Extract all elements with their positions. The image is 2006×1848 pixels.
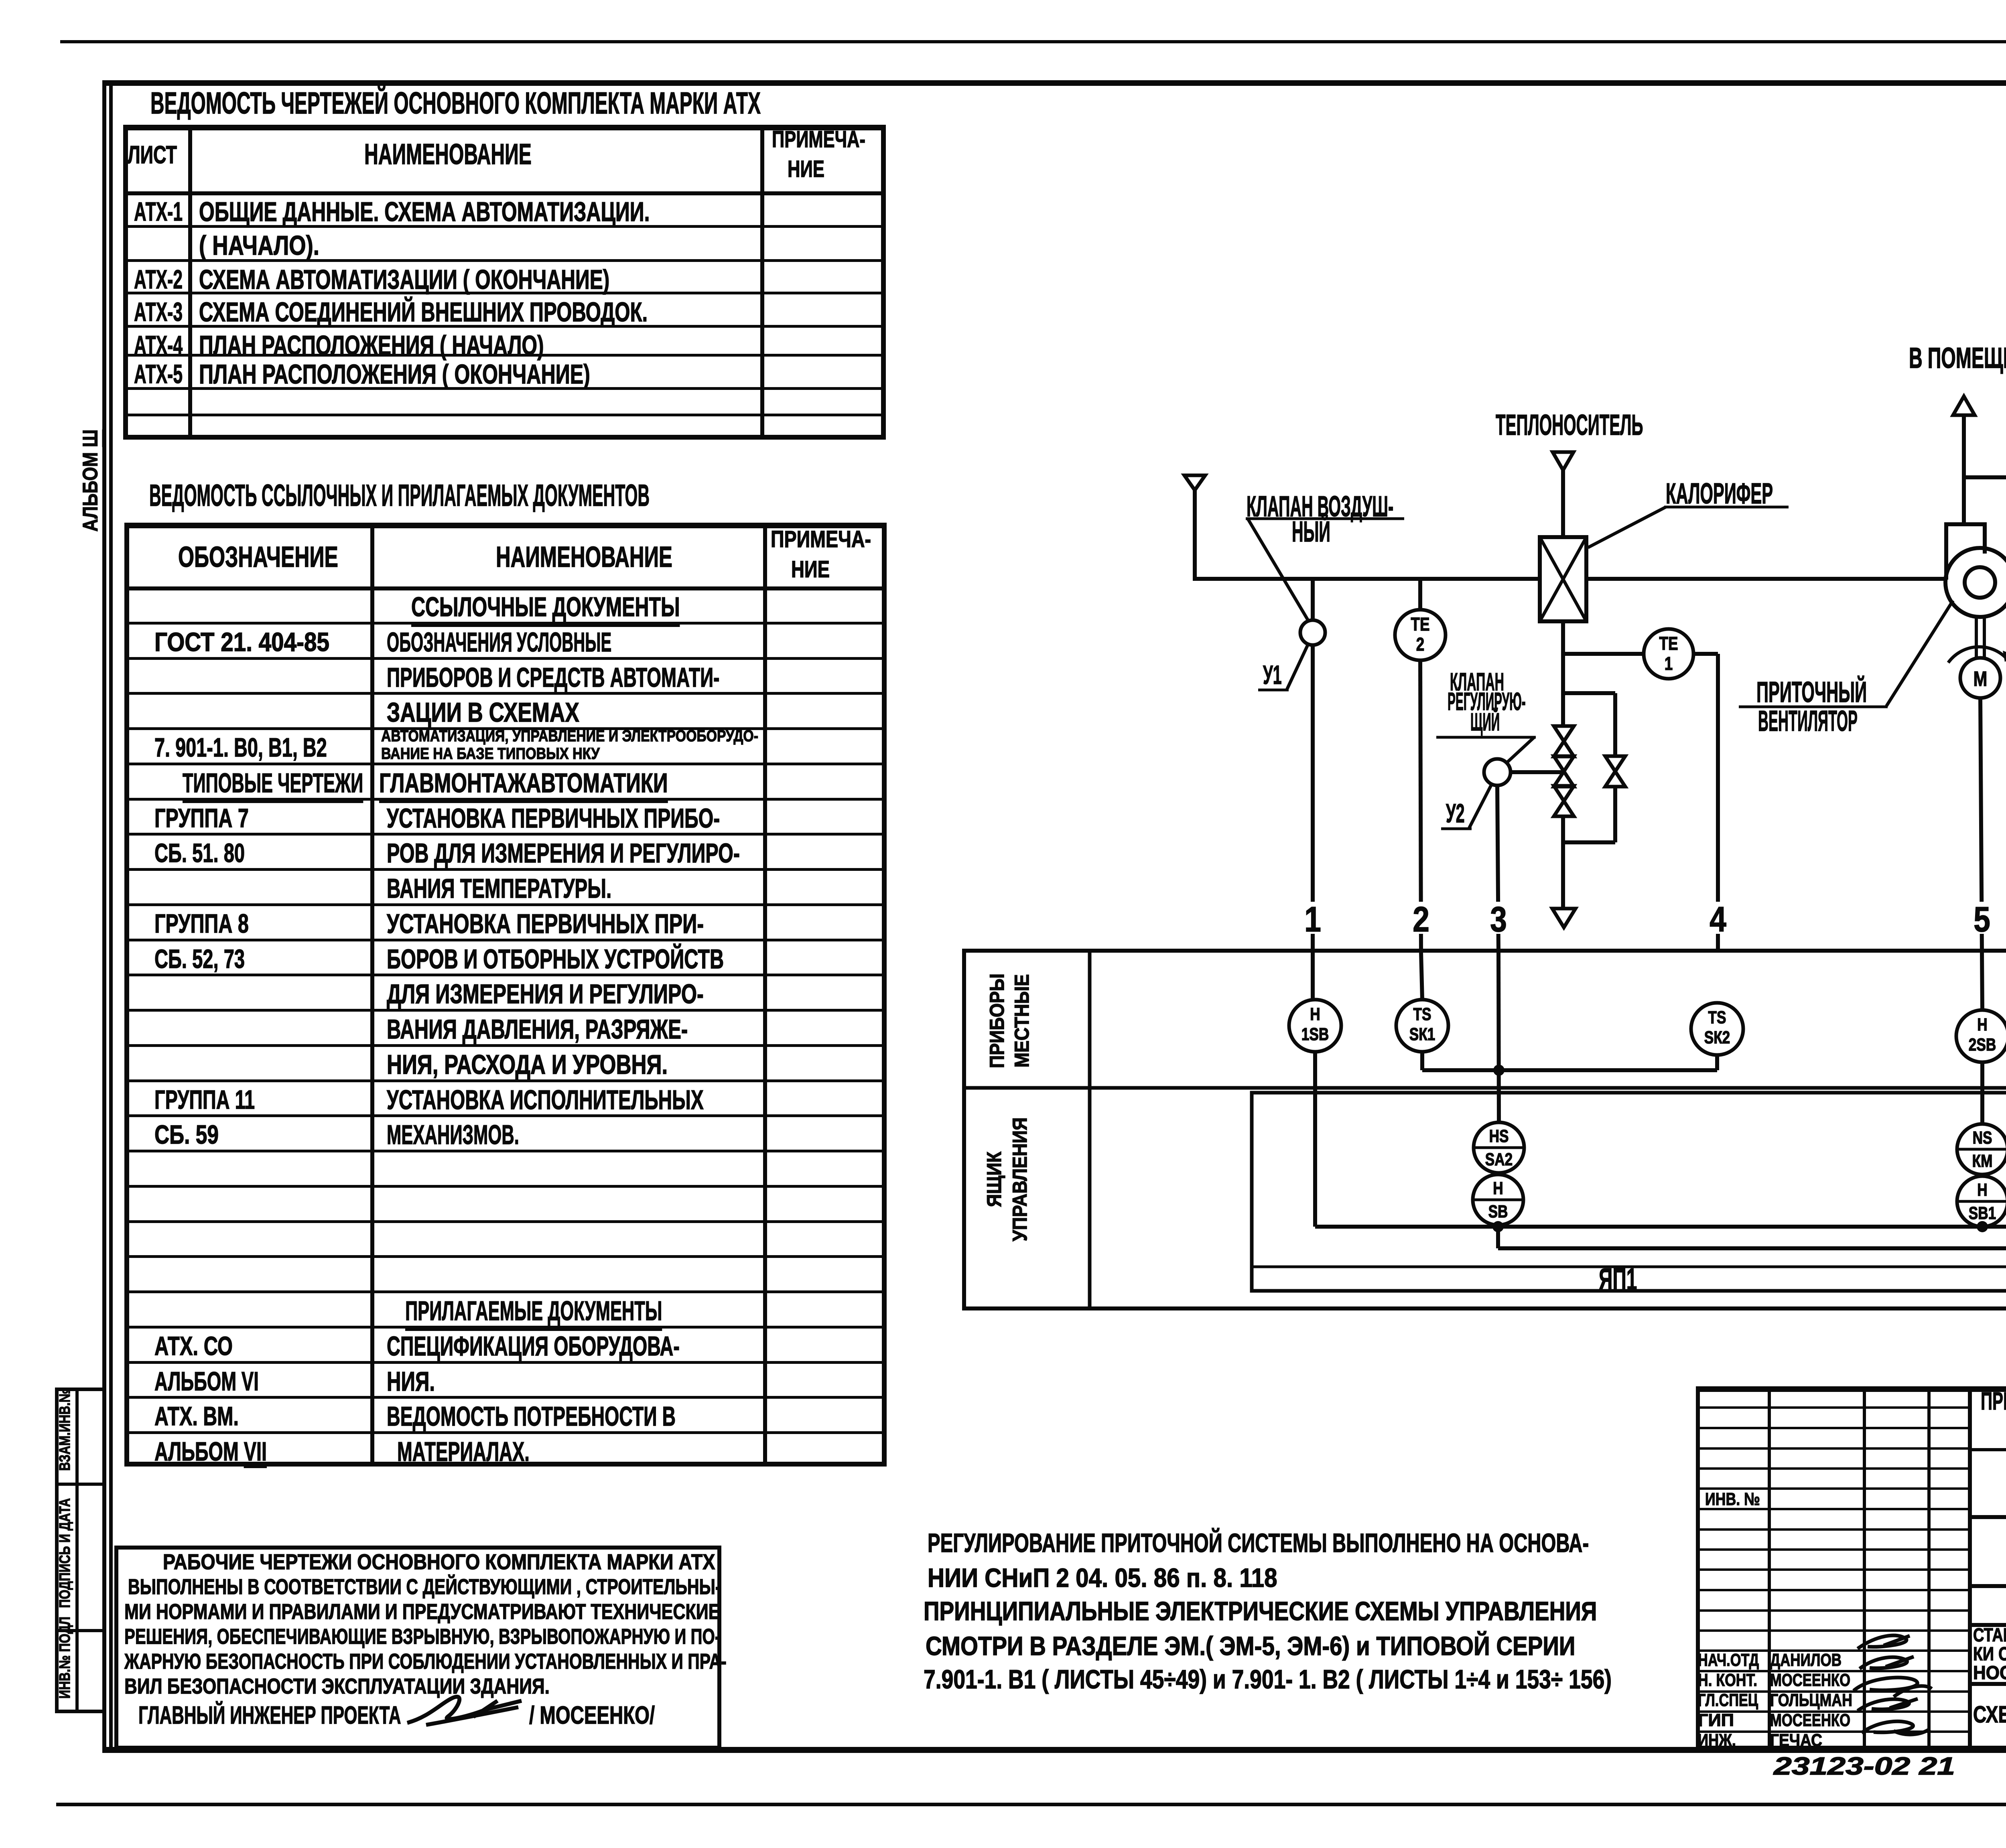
chief engineer signature (401, 1685, 534, 1737)
svg-text:НЫЙ: НЫЙ (1292, 516, 1330, 548)
to room arrow (1953, 396, 1975, 415)
device NS KM (1957, 1124, 2006, 1175)
TE1 branch wire (1563, 652, 1644, 656)
wire line 2 lower (1420, 660, 1421, 953)
album label (79, 445, 101, 532)
fan shaft (1975, 617, 1978, 658)
sensor TE1 (1644, 629, 1693, 679)
line number 4 (1704, 902, 1732, 934)
row divider (964, 1086, 2006, 1090)
svg-text:ТS: ТS (1708, 1008, 1726, 1027)
svg-text:ПРИТОЧНЫЙ: ПРИТОЧНЫЙ (1756, 676, 1867, 708)
title block signatures (1846, 1633, 1974, 1753)
svg-text:1: 1 (1665, 653, 1673, 674)
device TS SK2 (1691, 1003, 1743, 1055)
wire line 1 upper (1311, 581, 1315, 620)
bottom wire (1315, 1225, 2006, 1229)
main frame left inner (109, 86, 113, 1751)
label column divider (1088, 951, 1092, 1308)
line number 3 (1484, 902, 1513, 934)
sensor TE2 (1395, 610, 1446, 660)
svg-text:SА2: SА2 (1485, 1150, 1513, 1169)
control cabinet YaP1 (1252, 1093, 2006, 1291)
svg-text:SК2: SК2 (1704, 1028, 1730, 1047)
line number 1 (1299, 902, 1327, 934)
svg-text:Н: Н (1310, 1004, 1320, 1024)
air intake stem (1193, 490, 1197, 581)
svg-text:КАЛОРИФЕР: КАЛОРИФЕР (1666, 478, 1773, 510)
wire line 5 (1980, 698, 1982, 953)
bypass pipe lower (1613, 787, 1617, 842)
wire line 4 (1716, 654, 1720, 953)
svg-text:М: М (1974, 667, 1988, 691)
svg-text:ТS: ТS (1413, 1004, 1431, 1024)
svg-text:2: 2 (1413, 900, 1429, 939)
supply fan (1946, 524, 1985, 580)
device H SB (1473, 1175, 1523, 1225)
svg-text:2SВ: 2SВ (1969, 1035, 1996, 1055)
device TS SK1 (1396, 1000, 1448, 1052)
svg-text:НS: НS (1489, 1126, 1509, 1146)
valve actuator U2 (1484, 759, 1511, 785)
svg-text:В ПОМЕЩЕНИЕ: В ПОМЕЩЕНИЕ (1909, 342, 2006, 374)
line number 5 (1968, 902, 1996, 934)
svg-text:5: 5 (1974, 900, 1990, 939)
TE1 branch wire right (1693, 652, 1718, 656)
wire SK1-SK2 (1422, 1068, 1717, 1072)
wire line 3 (1497, 785, 1498, 953)
bypass valve (1605, 756, 1625, 771)
svg-text:У2: У2 (1446, 799, 1465, 828)
svg-text:КМ: КМ (1972, 1151, 1993, 1171)
TE3 branch wire (1964, 475, 2006, 479)
svg-text:ВЕНТИЛЯТОР: ВЕНТИЛЯТОР (1758, 705, 1858, 737)
main duct line left (1193, 577, 1540, 581)
wire line 1 in box (1311, 953, 1315, 1000)
svg-text:Н: Н (1977, 1015, 1987, 1035)
valve actuator U1 (1300, 620, 1325, 645)
svg-text:ЯЩИК: ЯЩИК (983, 1151, 1006, 1207)
alarm wire with arrow (1498, 1246, 2006, 1250)
svg-text:У1: У1 (1263, 660, 1282, 690)
svg-text:NS: NS (1973, 1128, 1992, 1148)
svg-text:4: 4 (1710, 900, 1726, 939)
wire line 5 in box (1982, 953, 1982, 1010)
local devices / control box outline (964, 951, 2006, 1308)
device H SB1 (1957, 1176, 2006, 1227)
control valve leader (1507, 737, 1534, 762)
motor M (1960, 658, 2000, 698)
U1 leader (1287, 645, 1308, 689)
air valve leader (1248, 519, 1309, 621)
line number 2 (1407, 902, 1435, 934)
main duct line right (1586, 577, 1946, 581)
wire line 1 lower (1311, 645, 1315, 953)
wire line 5 to NS KM (1980, 1062, 1984, 1124)
wire line 2 in box (1421, 953, 1422, 1000)
svg-text:Н: Н (1977, 1180, 1987, 1200)
heat pipe lower (1561, 816, 1565, 910)
junction SB bottom (1492, 1221, 1504, 1232)
junction SB1 bottom (1977, 1221, 1988, 1232)
wire SK2 drop (1715, 1055, 1719, 1070)
svg-text:ЯП1: ЯП1 (1599, 1263, 1637, 1296)
heat carrier inlet symbol (1553, 452, 1574, 470)
bypass pipe return (1564, 840, 1615, 844)
fan leader (1886, 600, 1953, 706)
U2 leader (1469, 784, 1492, 828)
main frame top (102, 80, 2006, 86)
control valve stack (1554, 726, 1574, 741)
junction line3 x SK wire (1493, 1065, 1504, 1076)
table 1: sheet list (150, 87, 761, 119)
svg-text:1: 1 (1304, 900, 1321, 939)
heater leader (1588, 507, 1666, 548)
fan outlet duct (1962, 415, 1966, 525)
heat outlet arrow (1552, 909, 1576, 927)
svg-text:ТЕ: ТЕ (1411, 614, 1429, 635)
bypass pipe down (1613, 693, 1617, 756)
middle note text (928, 1529, 1589, 1557)
left margin stack box (55, 1388, 102, 1391)
svg-text:1SВ: 1SВ (1301, 1024, 1329, 1044)
U2 actuator stem (1511, 770, 1564, 774)
svg-text:2: 2 (1416, 634, 1424, 655)
table 2: reference documents (149, 480, 650, 511)
svg-text:ТЕ: ТЕ (1659, 633, 1678, 654)
YaP1 label band (1252, 1266, 2006, 1268)
wire line 3 in box (1498, 953, 1499, 1122)
bottom-left note box (114, 1546, 721, 1550)
svg-text:SВ1: SВ1 (1969, 1203, 1996, 1223)
svg-text:ТЕПЛОНОСИТЕЛЬ: ТЕПЛОНОСИТЕЛЬ (1496, 409, 1643, 441)
svg-text:ПРИБОРЫ: ПРИБОРЫ (986, 974, 1009, 1068)
air intake symbol (1184, 475, 1205, 490)
device H 1SB (1289, 1000, 1341, 1052)
rotation arc (1948, 647, 2006, 663)
wire SK1 drop (1420, 1052, 1424, 1070)
heater (kalorifer) (1540, 537, 1586, 621)
heater return pipe upper (1561, 621, 1565, 728)
svg-text:МЕСТНЫЕ: МЕСТНЫЕ (1011, 974, 1033, 1068)
svg-text:Н: Н (1493, 1179, 1503, 1198)
main frame left outer (102, 80, 106, 1753)
top trim line (60, 40, 2006, 43)
wire line 2 upper (1418, 579, 1422, 610)
svg-text:3: 3 (1490, 900, 1507, 939)
device H 2SB (1956, 1010, 2006, 1062)
heat carrier inlet pipe (1561, 470, 1565, 539)
svg-text:SВ: SВ (1488, 1202, 1508, 1221)
title block (1696, 1386, 2006, 1392)
main frame bottom (102, 1747, 2006, 1753)
svg-text:УПРАВЛЕНИЯ: УПРАВЛЕНИЯ (1009, 1118, 1031, 1241)
svg-text:ЩИЙ: ЩИЙ (1470, 708, 1500, 736)
wire line 1 to bottom (1313, 1052, 1317, 1227)
bypass pipe top (1564, 691, 1615, 695)
alarm wire drop (1496, 1227, 1500, 1248)
device HS SA2 (1474, 1122, 1524, 1173)
bottom trim line (56, 1803, 2006, 1806)
svg-text:SК1: SК1 (1409, 1024, 1435, 1044)
